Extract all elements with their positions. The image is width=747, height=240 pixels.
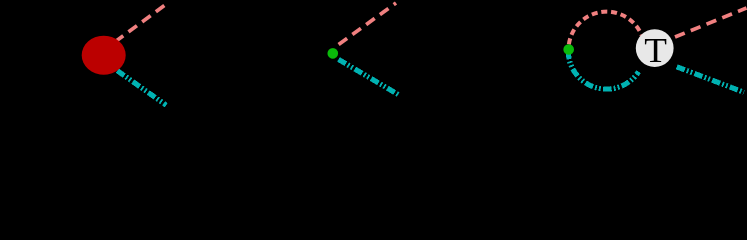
svg-text:T: T (644, 31, 667, 69)
diagram 1: higgs dashed line (outgoing, upper right) (115, 5, 166, 42)
diagram 3: teal hatched line from T circle (lower right) (677, 67, 744, 93)
diagram 2: higgs dashed line (outgoing, upper right) (339, 3, 396, 45)
diagram 3: higgs dashed line from T circle (upper right) (675, 8, 747, 37)
diagram 2: teal hatched scalar line (outgoing, lower right) (339, 59, 400, 95)
diagram 3: loop vertex dot (563, 44, 574, 55)
diagram 3: loop lower arc (teal hatched) (568, 51, 638, 89)
diagram 3: loop upper arc (higgs dashed) (569, 12, 642, 50)
diagram 2: tree-level vertex dot (328, 48, 339, 59)
diagram 3: T insertion circle (636, 29, 674, 67)
diagram 1: effective-vertex blob (82, 36, 126, 75)
diagram 1: teal hatched scalar line (outgoing, lower right) (117, 71, 166, 106)
